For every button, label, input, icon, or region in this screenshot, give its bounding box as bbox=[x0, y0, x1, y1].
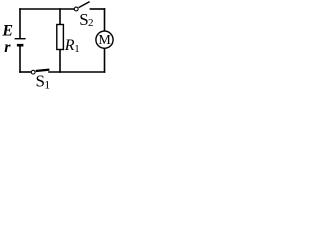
svg-text:M: M bbox=[98, 33, 111, 48]
svg-text:R: R bbox=[64, 37, 75, 54]
switch S1 blade bbox=[36, 70, 50, 71]
wire right vertical lower bbox=[104, 48, 106, 72]
svg-text:1: 1 bbox=[74, 43, 80, 55]
wire middle branch lower bbox=[59, 50, 61, 73]
motor M circle bbox=[96, 31, 113, 48]
battery E r long plate bbox=[15, 38, 26, 40]
wire right vertical upper bbox=[104, 9, 106, 31]
resistor R1 box bbox=[57, 25, 64, 50]
switch S1 pivot bbox=[31, 70, 35, 74]
battery E r short thick plate bbox=[17, 44, 24, 47]
wire middle branch upper bbox=[59, 9, 61, 25]
wire bottom-left segment bbox=[20, 71, 31, 73]
wire left vertical lower bbox=[19, 46, 21, 72]
wire top-left segment bbox=[20, 8, 74, 10]
switch S2 blade bbox=[79, 2, 90, 8]
switch S2 pivot bbox=[74, 7, 78, 11]
svg-text:2: 2 bbox=[88, 17, 94, 29]
svg-text:r: r bbox=[4, 39, 11, 56]
wire top-right segment bbox=[90, 8, 104, 10]
svg-text:1: 1 bbox=[44, 77, 50, 91]
svg-text:E: E bbox=[1, 23, 13, 40]
wire left vertical upper bbox=[19, 9, 21, 38]
wire bottom-right segment bbox=[49, 71, 105, 73]
